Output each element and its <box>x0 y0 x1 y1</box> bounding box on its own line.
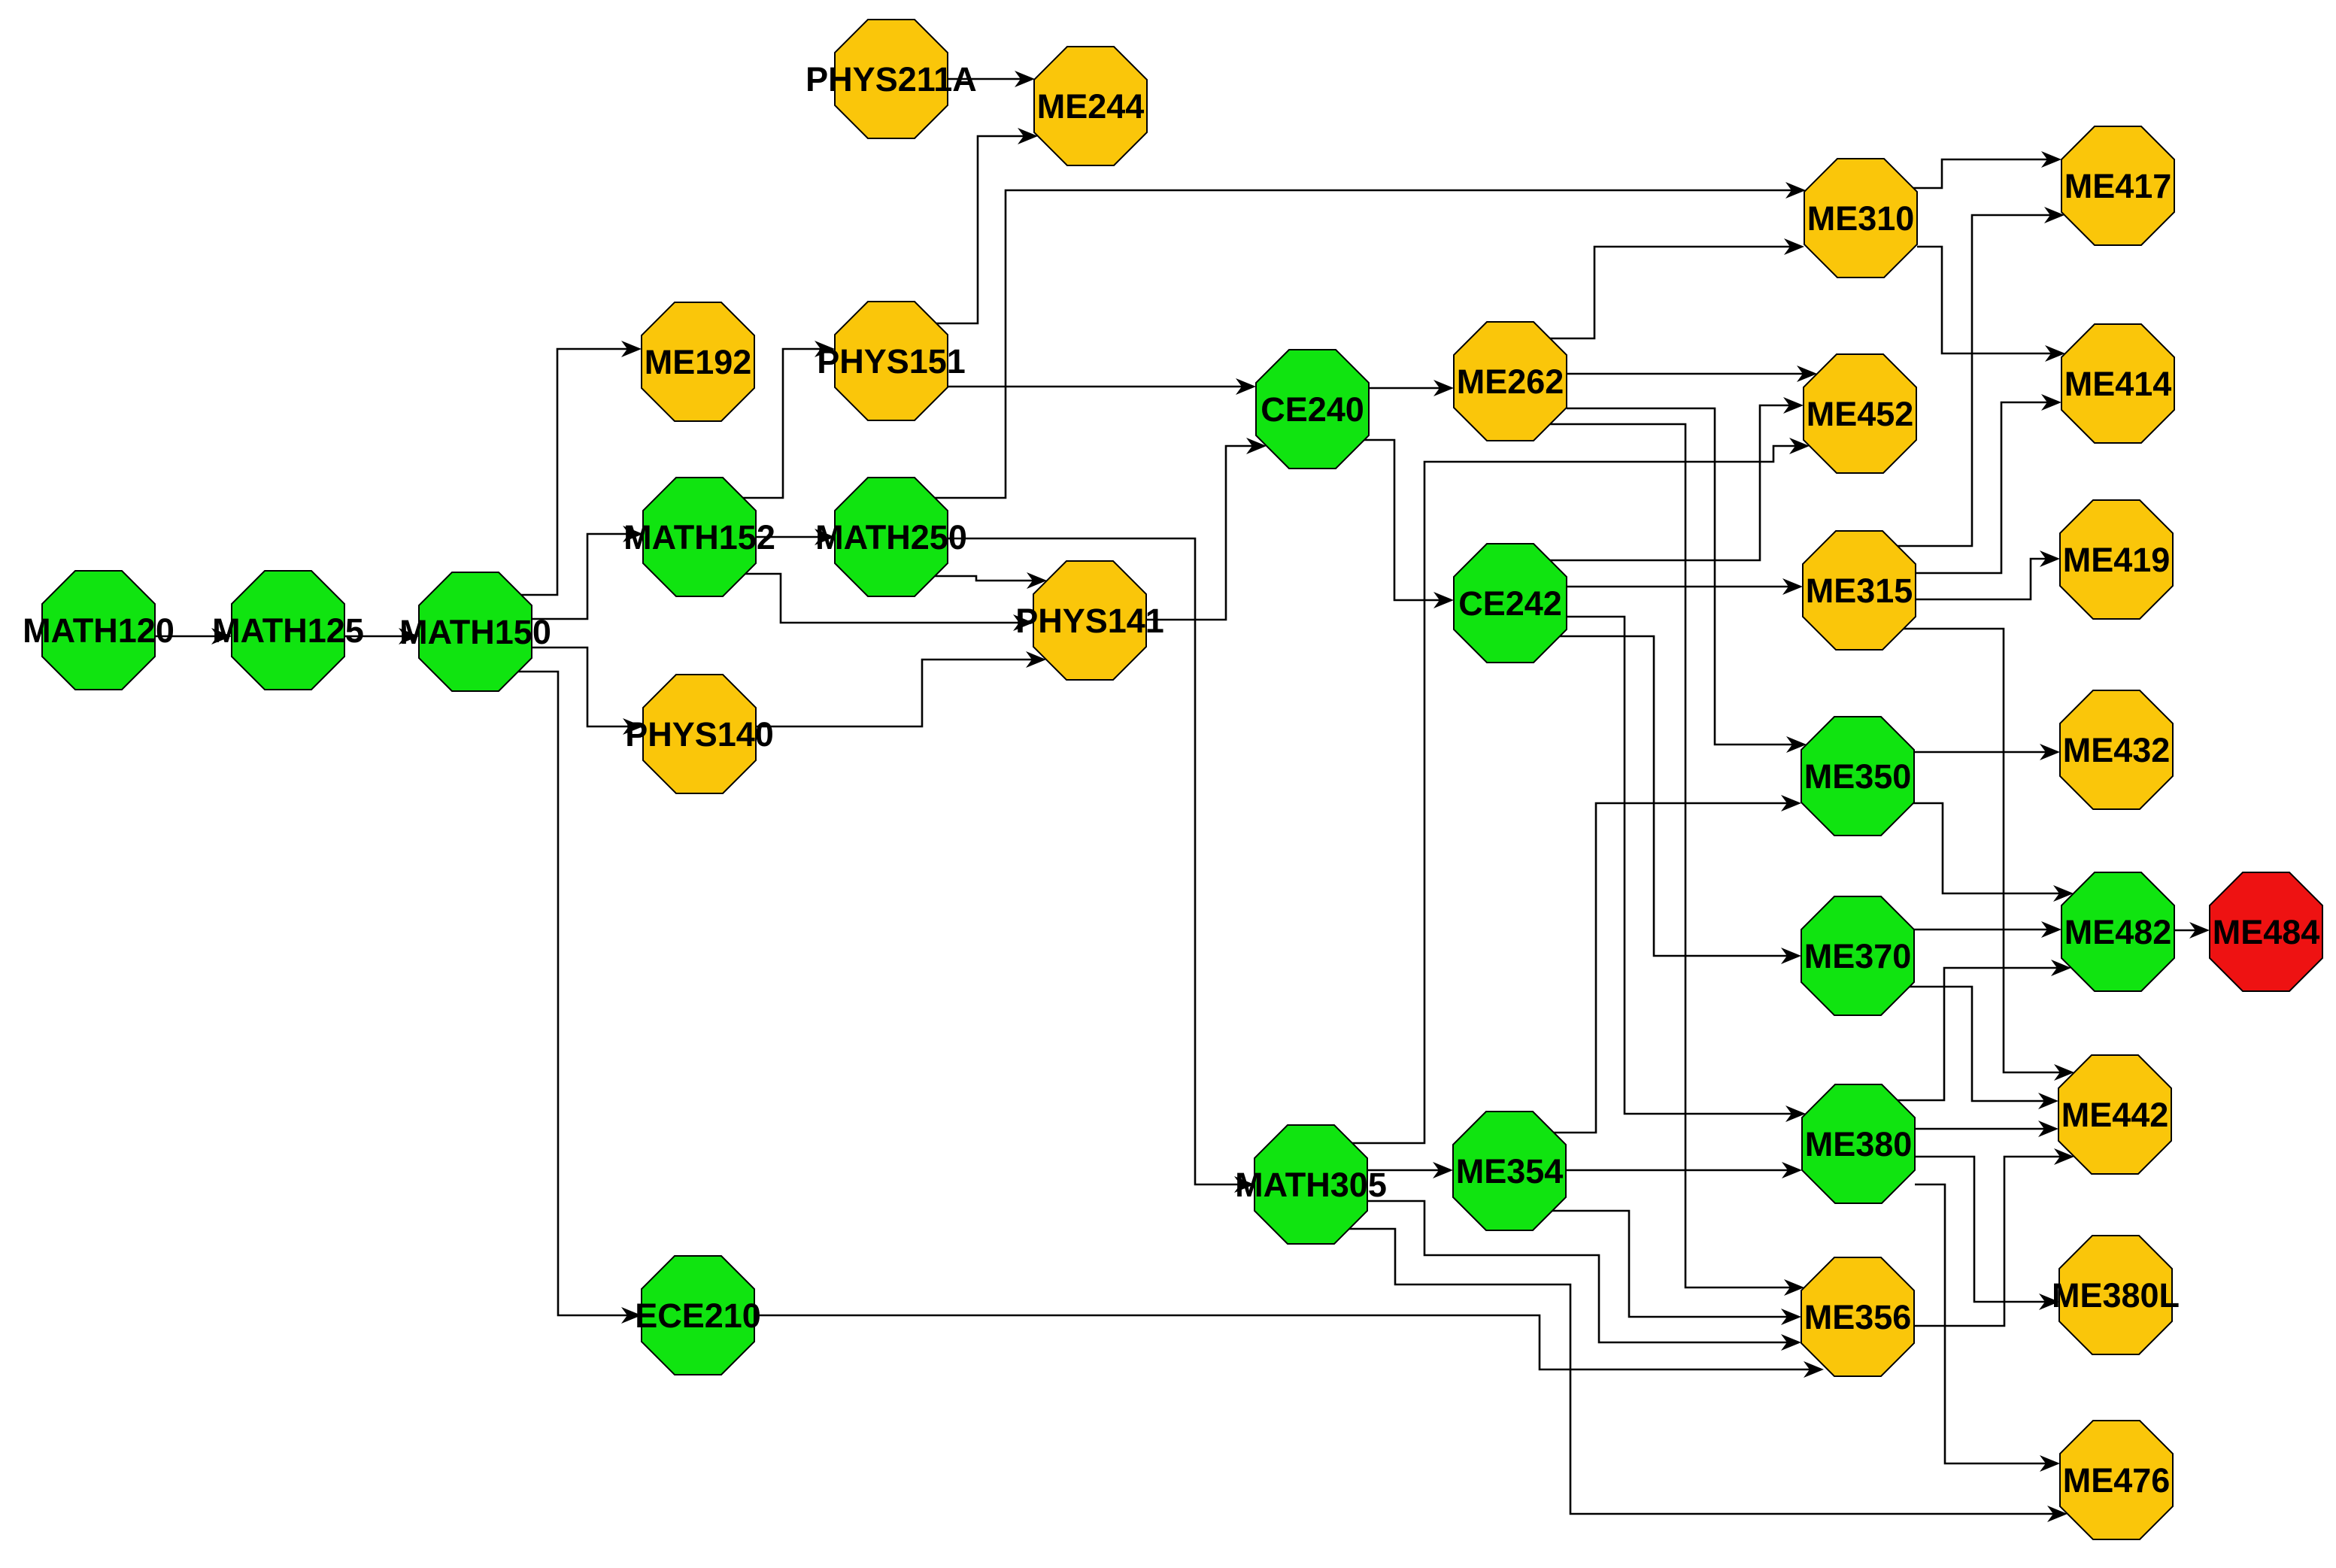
svg-text:PHYS211A: PHYS211A <box>805 60 977 99</box>
svg-text:MATH250: MATH250 <box>815 518 967 557</box>
svg-text:PHYS141: PHYS141 <box>1015 602 1164 640</box>
svg-text:MATH120: MATH120 <box>23 611 174 650</box>
svg-text:MATH150: MATH150 <box>399 613 551 651</box>
svg-text:ME414: ME414 <box>2064 365 2172 403</box>
svg-text:ME419: ME419 <box>2063 541 2171 579</box>
svg-text:MATH305: MATH305 <box>1235 1166 1387 1204</box>
svg-text:ME244: ME244 <box>1037 87 1145 126</box>
svg-text:ME432: ME432 <box>2063 731 2171 769</box>
svg-text:ME380L: ME380L <box>2052 1276 2180 1315</box>
svg-text:CE240: CE240 <box>1261 390 1364 429</box>
svg-text:ME380: ME380 <box>1805 1125 1913 1163</box>
svg-text:MATH152: MATH152 <box>623 518 775 557</box>
svg-text:PHYS140: PHYS140 <box>625 715 774 754</box>
svg-text:ME476: ME476 <box>2063 1461 2171 1500</box>
svg-text:ME262: ME262 <box>1457 362 1564 401</box>
svg-text:ME354: ME354 <box>1456 1152 1564 1190</box>
svg-text:ME350: ME350 <box>1804 757 1912 796</box>
svg-text:ME315: ME315 <box>1806 572 1913 610</box>
svg-text:MATH125: MATH125 <box>212 611 364 650</box>
svg-text:ME417: ME417 <box>2064 167 2172 205</box>
svg-text:ME442: ME442 <box>2061 1096 2169 1134</box>
svg-text:ECE210: ECE210 <box>635 1297 761 1335</box>
svg-text:PHYS151: PHYS151 <box>817 342 966 381</box>
svg-text:ME482: ME482 <box>2064 913 2172 951</box>
svg-text:CE242: CE242 <box>1458 584 1562 623</box>
svg-text:ME310: ME310 <box>1807 199 1915 238</box>
svg-text:ME370: ME370 <box>1804 937 1912 975</box>
svg-text:ME452: ME452 <box>1807 395 1914 433</box>
svg-text:ME484: ME484 <box>2213 913 2320 951</box>
svg-text:ME356: ME356 <box>1804 1298 1912 1336</box>
svg-text:ME192: ME192 <box>645 343 752 381</box>
